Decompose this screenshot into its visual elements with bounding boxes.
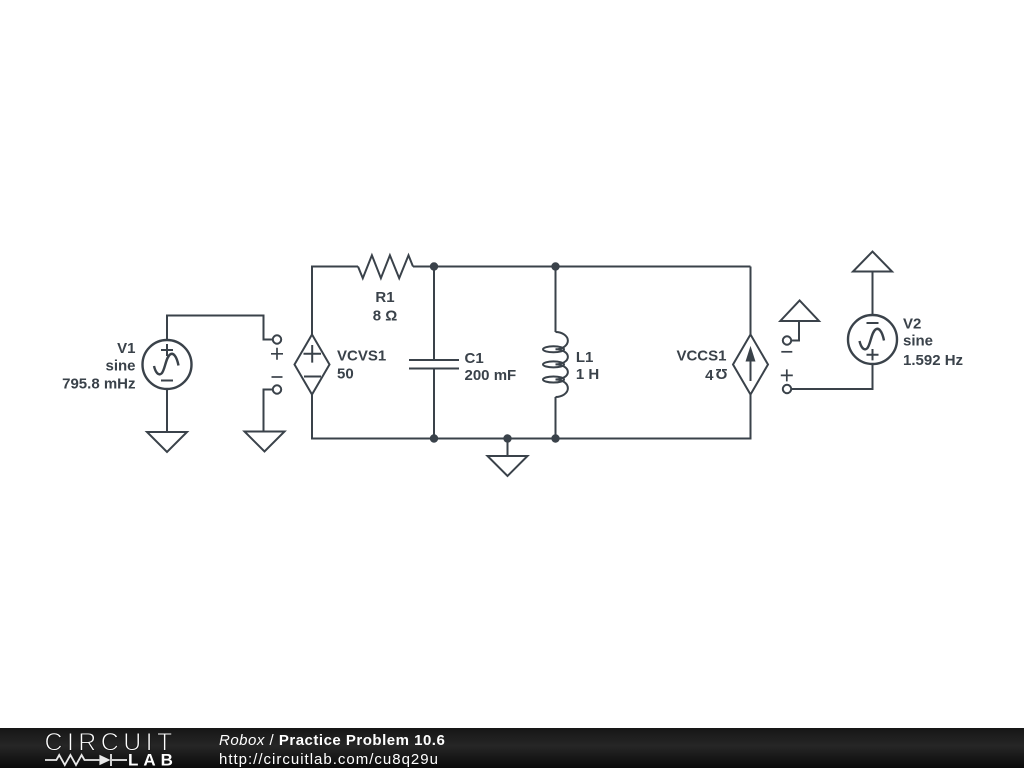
svg-text:L1: L1: [576, 349, 594, 366]
label: terminal - sign: [781, 351, 792, 353]
svg-text:V2: V2: [903, 316, 921, 333]
voltage source V1: [143, 340, 192, 389]
svg-text:200 mF: 200 mF: [465, 367, 517, 384]
node junction (L1 bottom): [552, 435, 558, 441]
wire: ground stub: [507, 439, 509, 457]
svg-text:C1: C1: [465, 350, 484, 367]
inductor L1: [543, 332, 568, 397]
svg-text:1 H: 1 H: [576, 366, 599, 383]
dependent source VCVS1 (diamond): [295, 335, 330, 395]
svg-text:4: 4: [705, 367, 714, 384]
capacitor C1 plates: [409, 360, 459, 369]
wire: VCVS1 bottom lead: [311, 395, 313, 440]
wire: L1 bottom lead: [555, 397, 557, 439]
svg-text:sine: sine: [105, 357, 135, 374]
capacitor C1 bottom lead: [433, 369, 435, 439]
capacitor C1 top lead: [433, 267, 435, 361]
footer bar: [0, 728, 1024, 768]
wire: bottom rail: [311, 438, 751, 440]
terminal (VCCS1 -): [783, 336, 791, 344]
footer caption: [219, 731, 445, 768]
svg-text:795.8 mHz: 795.8 mHz: [62, 376, 135, 393]
wire: V1 bottom lead: [166, 389, 168, 433]
dependent source VCCS1 (diamond): [733, 335, 768, 395]
svg-text:1.592 Hz: 1.592 Hz: [903, 352, 963, 369]
ground (V1): [147, 432, 187, 452]
svg-text:VCVS1: VCVS1: [337, 348, 386, 365]
label: terminal + sign: [271, 348, 283, 360]
wire: left rail, top wire into VCVS1: [311, 268, 313, 335]
wire: V1 top lead to upper terminal: [167, 316, 273, 342]
wire: power flag to upper terminal: [791, 321, 799, 341]
svg-text:50: 50: [337, 366, 354, 383]
wire: lower terminal to ground: [264, 390, 273, 432]
wire: top rail left segment: [311, 266, 358, 268]
power flag (V2): [853, 252, 892, 272]
wire: L1 top lead: [555, 267, 557, 333]
wire: right rail into VCCS1: [750, 267, 752, 335]
svg-text:R1: R1: [375, 289, 394, 306]
terminal (VCCS1 +): [783, 385, 791, 393]
terminal (upper, + input): [273, 335, 281, 343]
svg-text:VCCS1: VCCS1: [676, 348, 726, 365]
svg-text:8 Ω: 8 Ω: [373, 308, 398, 325]
wire: top rail middle segment: [413, 266, 751, 268]
svg-text:Ω: Ω: [715, 365, 727, 382]
ground (terminal): [245, 432, 285, 452]
power flag (VCCS1 terminal): [780, 301, 819, 322]
svg-text:LAB: LAB: [128, 751, 178, 768]
svg-text:sine: sine: [903, 333, 933, 350]
node junction (R1/C1): [431, 263, 437, 269]
resistor R1: [358, 255, 413, 278]
label: terminal - sign: [272, 376, 283, 378]
node junction (ground): [504, 435, 510, 441]
wire: lower terminal to V2: [791, 363, 873, 389]
node junction (C1 bottom): [431, 435, 437, 441]
voltage source V2: [848, 315, 897, 364]
node junction (L1 top): [552, 263, 558, 269]
label: terminal + sign: [781, 369, 793, 381]
wire: VCCS1 bottom lead: [750, 395, 752, 440]
CircuitLab logo: [0, 728, 210, 768]
svg-text:V1: V1: [117, 340, 135, 357]
terminal (lower, - input): [273, 385, 281, 393]
wire: V2 top lead: [872, 272, 874, 317]
ground (node): [488, 456, 528, 476]
